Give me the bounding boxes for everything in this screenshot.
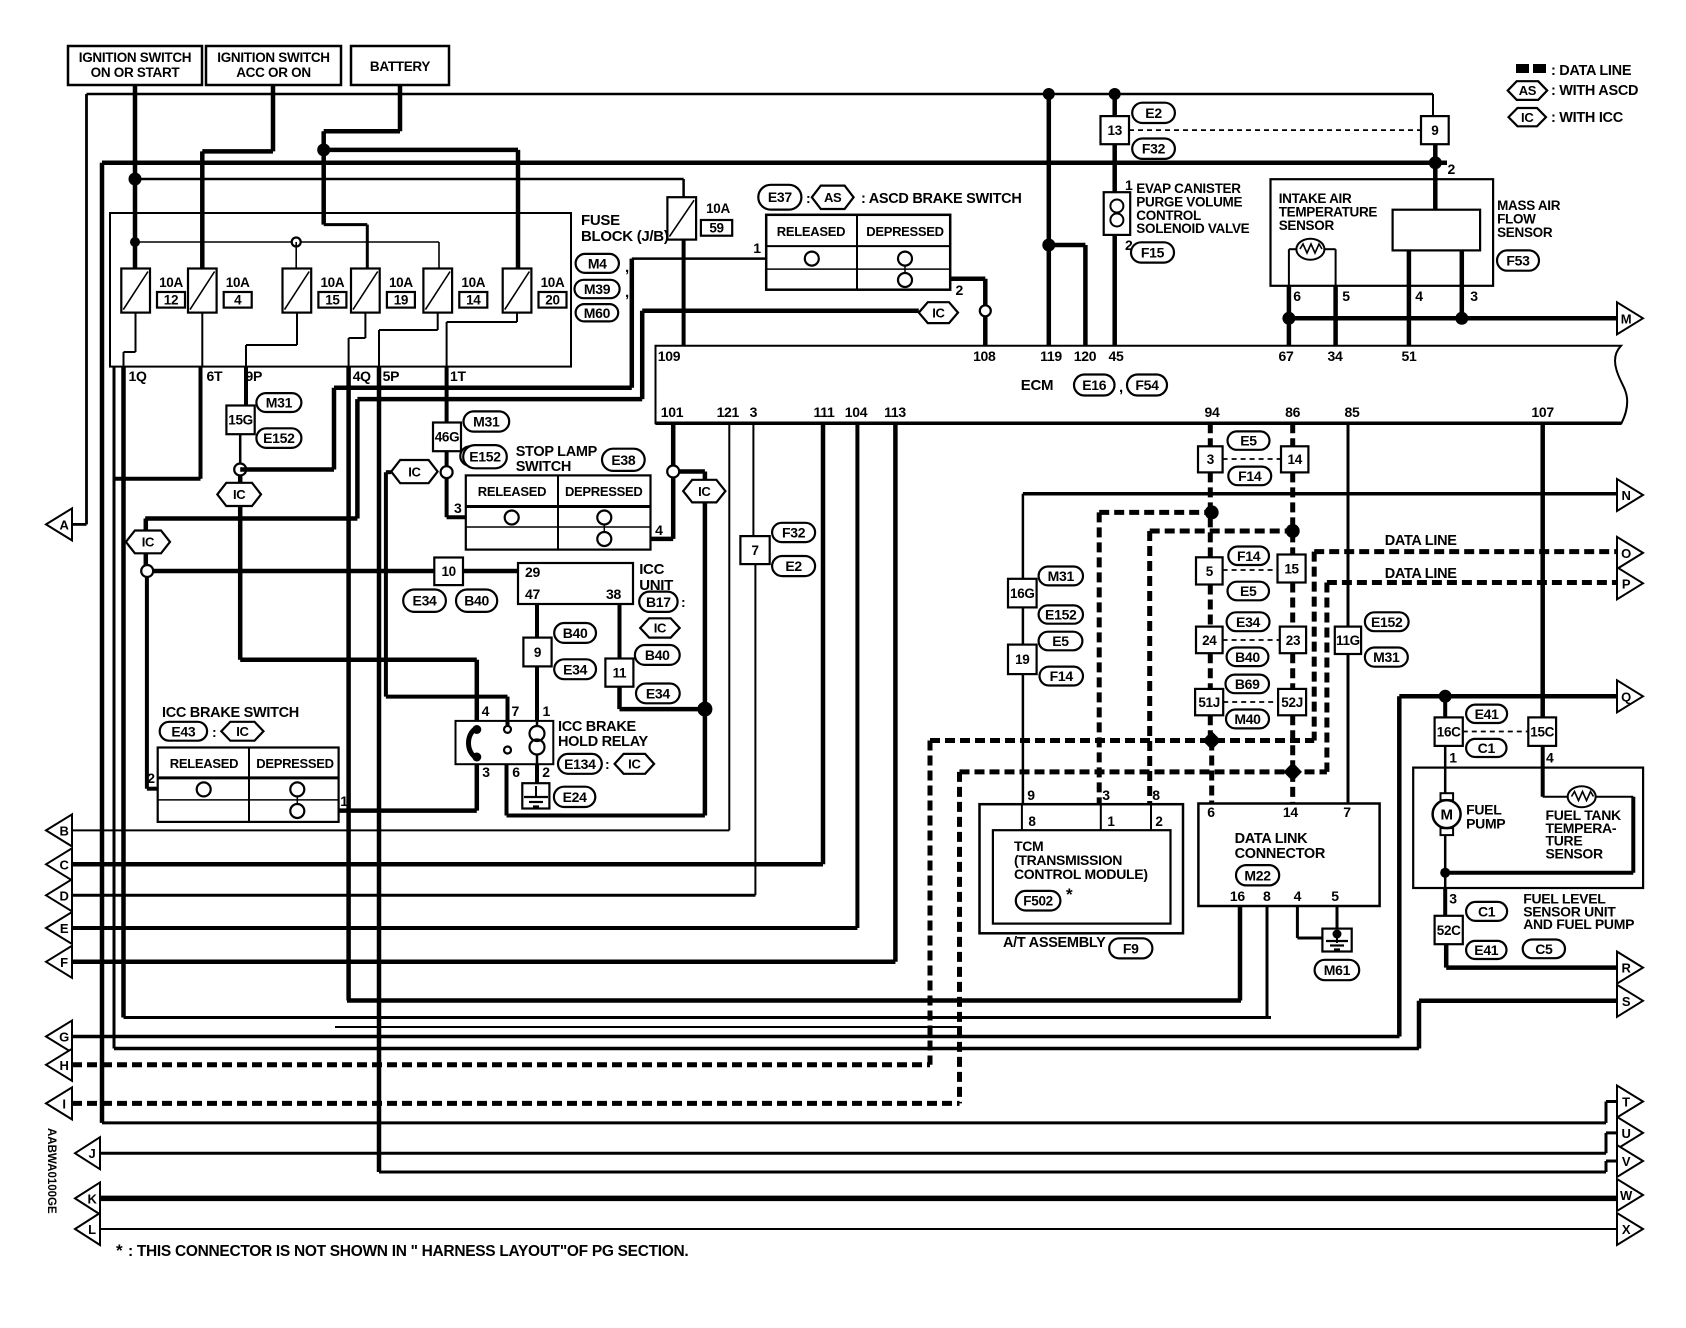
svg-text:E134: E134 xyxy=(564,756,596,772)
svg-text:H: H xyxy=(59,1058,68,1073)
svg-text:E24: E24 xyxy=(563,789,588,805)
svg-text:1: 1 xyxy=(1125,177,1133,193)
svg-text:120: 120 xyxy=(1074,348,1097,364)
svg-text:19: 19 xyxy=(1015,652,1029,667)
svg-text:E43: E43 xyxy=(171,723,196,739)
svg-text:10A: 10A xyxy=(159,275,183,290)
svg-text:W: W xyxy=(1620,1188,1633,1203)
svg-text:E41: E41 xyxy=(1475,706,1500,722)
svg-text:F15: F15 xyxy=(1141,244,1165,260)
svg-text:C: C xyxy=(59,857,69,872)
svg-text:SENSOR: SENSOR xyxy=(1497,225,1553,240)
svg-text:E5: E5 xyxy=(1240,433,1257,449)
svg-text:: ASCD BRAKE SWITCH: : ASCD BRAKE SWITCH xyxy=(861,191,1022,207)
svg-text:5: 5 xyxy=(1342,288,1350,304)
svg-text:SENSOR: SENSOR xyxy=(1279,218,1335,233)
svg-text:B69: B69 xyxy=(1235,676,1260,692)
svg-text:14: 14 xyxy=(1283,804,1298,820)
svg-text:P: P xyxy=(1622,576,1631,591)
svg-text:F14: F14 xyxy=(1050,668,1074,684)
svg-text:16: 16 xyxy=(1230,888,1245,904)
svg-text:*: * xyxy=(1066,885,1073,904)
svg-text:ECM: ECM xyxy=(1021,377,1053,394)
svg-text:15G: 15G xyxy=(228,413,253,428)
svg-text:9: 9 xyxy=(1431,123,1438,138)
svg-text:67: 67 xyxy=(1279,348,1294,364)
svg-text:G: G xyxy=(59,1030,69,1045)
svg-text:6T: 6T xyxy=(207,368,223,384)
svg-text:IC: IC xyxy=(236,724,249,739)
svg-text:M31: M31 xyxy=(1048,568,1075,584)
svg-text:RELEASED: RELEASED xyxy=(170,756,238,771)
svg-text:M40: M40 xyxy=(1234,711,1261,727)
svg-text:4: 4 xyxy=(1415,288,1423,304)
svg-text:1: 1 xyxy=(1449,749,1457,765)
svg-text::: : xyxy=(681,594,685,610)
svg-text:E38: E38 xyxy=(611,452,636,468)
svg-text:6: 6 xyxy=(1293,288,1301,304)
svg-text:4Q: 4Q xyxy=(353,368,371,384)
svg-text:AS: AS xyxy=(1519,83,1537,98)
svg-text:M61: M61 xyxy=(1324,962,1351,978)
svg-text:1: 1 xyxy=(543,703,551,719)
svg-text:F9: F9 xyxy=(1123,940,1139,956)
svg-text:E34: E34 xyxy=(646,685,671,701)
svg-text:C5: C5 xyxy=(1535,941,1553,957)
svg-text:15: 15 xyxy=(1284,561,1299,576)
svg-text:1Q: 1Q xyxy=(129,368,147,384)
svg-text:8: 8 xyxy=(1263,888,1271,904)
svg-text:FUSE: FUSE xyxy=(581,212,620,229)
svg-text:: WITH ICC: : WITH ICC xyxy=(1551,110,1624,126)
svg-text:,: , xyxy=(625,284,629,301)
svg-text:IC: IC xyxy=(1521,110,1534,125)
svg-text:111: 111 xyxy=(814,404,835,420)
svg-text:IGNITION SWITCH: IGNITION SWITCH xyxy=(79,50,192,65)
svg-text:12: 12 xyxy=(164,293,178,308)
svg-text:1: 1 xyxy=(753,240,761,256)
svg-text:59: 59 xyxy=(709,221,723,236)
svg-text:F14: F14 xyxy=(1237,548,1261,564)
svg-text:STOP LAMP: STOP LAMP xyxy=(516,444,598,460)
svg-text:1T: 1T xyxy=(450,368,466,384)
svg-text:4: 4 xyxy=(482,703,490,719)
svg-text:E152: E152 xyxy=(1045,607,1077,623)
svg-text:IC: IC xyxy=(233,487,246,502)
svg-text:86: 86 xyxy=(1285,404,1300,420)
svg-text:23: 23 xyxy=(1286,633,1301,648)
svg-text:N: N xyxy=(1621,488,1630,503)
svg-text:B40: B40 xyxy=(563,625,588,641)
svg-text:A/T ASSEMBLY: A/T ASSEMBLY xyxy=(1003,935,1106,951)
svg-text:IC: IC xyxy=(408,464,421,479)
svg-text:M39: M39 xyxy=(584,281,611,297)
svg-text:DEPRESSED: DEPRESSED xyxy=(565,484,643,499)
svg-text:IGNITION SWITCH: IGNITION SWITCH xyxy=(217,50,330,65)
svg-text:E41: E41 xyxy=(1474,942,1499,958)
svg-text:: THIS CONNECTOR IS NOT SHOWN: : THIS CONNECTOR IS NOT SHOWN IN " HARNE… xyxy=(128,1243,688,1260)
svg-text:DATA LINE: DATA LINE xyxy=(1385,533,1458,549)
svg-text::: : xyxy=(212,724,216,740)
svg-text:11G: 11G xyxy=(1336,633,1360,648)
svg-text:52C: 52C xyxy=(1437,923,1461,938)
svg-text:3: 3 xyxy=(1449,891,1457,907)
svg-text:DATA LINK: DATA LINK xyxy=(1235,831,1309,847)
svg-text:5: 5 xyxy=(1331,888,1339,904)
svg-text:A: A xyxy=(59,517,69,532)
svg-text:RELEASED: RELEASED xyxy=(777,224,845,239)
svg-text:15: 15 xyxy=(325,293,340,308)
svg-text:15C: 15C xyxy=(1530,725,1554,740)
svg-text:: DATA LINE: : DATA LINE xyxy=(1551,63,1632,79)
svg-text:F32: F32 xyxy=(1142,141,1166,157)
svg-text:,: , xyxy=(1119,379,1123,396)
svg-text:34: 34 xyxy=(1328,348,1343,364)
svg-text:47: 47 xyxy=(525,586,540,602)
svg-text:M22: M22 xyxy=(1244,867,1271,883)
svg-text:121: 121 xyxy=(717,404,740,420)
svg-text:16G: 16G xyxy=(1010,586,1035,601)
svg-text:IC: IC xyxy=(142,535,155,550)
svg-text:9: 9 xyxy=(1027,787,1035,803)
svg-text:C1: C1 xyxy=(1478,740,1496,756)
svg-text:10A: 10A xyxy=(226,275,250,290)
svg-text:F: F xyxy=(60,955,68,970)
svg-text:3: 3 xyxy=(1207,452,1215,467)
svg-text:4: 4 xyxy=(1294,888,1302,904)
svg-text:M31: M31 xyxy=(266,395,293,411)
svg-text:DEPRESSED: DEPRESSED xyxy=(256,756,334,771)
svg-text:10A: 10A xyxy=(461,275,485,290)
svg-text:3: 3 xyxy=(750,404,758,420)
svg-text:3: 3 xyxy=(454,500,462,516)
svg-text:E5: E5 xyxy=(1240,583,1257,599)
svg-text:R: R xyxy=(1621,961,1631,976)
svg-text:L: L xyxy=(88,1222,96,1237)
svg-text:5: 5 xyxy=(1206,564,1214,579)
svg-text::: : xyxy=(605,756,609,772)
svg-text:IC: IC xyxy=(698,484,711,499)
svg-text:E37: E37 xyxy=(768,189,793,205)
svg-text:I: I xyxy=(62,1096,65,1111)
svg-text:F14: F14 xyxy=(1238,468,1262,484)
svg-text:AND FUEL PUMP: AND FUEL PUMP xyxy=(1523,916,1634,932)
svg-text:AABWA0100GE: AABWA0100GE xyxy=(45,1128,57,1214)
svg-text:ICC BRAKE SWITCH: ICC BRAKE SWITCH xyxy=(162,705,299,721)
svg-text:SWITCH: SWITCH xyxy=(516,459,571,475)
svg-text:10A: 10A xyxy=(320,275,344,290)
svg-text:F54: F54 xyxy=(1135,377,1159,393)
svg-text:M31: M31 xyxy=(473,414,500,430)
svg-text:2: 2 xyxy=(147,770,155,786)
svg-text::: : xyxy=(806,190,810,206)
svg-text:B40: B40 xyxy=(464,593,489,609)
svg-text:ON OR START: ON OR START xyxy=(91,65,181,80)
svg-text:PUMP: PUMP xyxy=(1466,816,1505,832)
svg-text:X: X xyxy=(1622,1222,1631,1237)
svg-text:10A: 10A xyxy=(541,275,565,290)
svg-text:2: 2 xyxy=(956,282,964,298)
svg-text:M: M xyxy=(1440,807,1452,824)
svg-text:: WITH ASCD: : WITH ASCD xyxy=(1551,83,1638,99)
svg-text:C1: C1 xyxy=(1478,903,1496,919)
svg-text:M4: M4 xyxy=(588,255,607,271)
svg-text:E16: E16 xyxy=(1082,377,1107,393)
svg-text:SOLENOID VALVE: SOLENOID VALVE xyxy=(1136,221,1249,236)
svg-text:14: 14 xyxy=(1287,452,1302,467)
svg-text:107: 107 xyxy=(1531,404,1554,420)
svg-text:E34: E34 xyxy=(413,593,438,609)
svg-text:O: O xyxy=(1621,546,1631,561)
svg-text:108: 108 xyxy=(973,348,996,364)
svg-text:BATTERY: BATTERY xyxy=(370,59,430,74)
svg-text:16C: 16C xyxy=(1437,725,1461,740)
svg-text:8: 8 xyxy=(1152,787,1160,803)
svg-text:E34: E34 xyxy=(1236,614,1261,630)
svg-text:E: E xyxy=(60,921,69,936)
svg-text:10A: 10A xyxy=(706,201,730,216)
svg-text:F502: F502 xyxy=(1023,894,1053,909)
svg-text:5P: 5P xyxy=(383,368,400,384)
svg-text:7: 7 xyxy=(1343,804,1351,820)
svg-text:10A: 10A xyxy=(389,275,413,290)
svg-text:4: 4 xyxy=(234,293,242,308)
svg-text:B17: B17 xyxy=(646,594,671,610)
svg-text:9: 9 xyxy=(534,645,541,660)
svg-text:E34: E34 xyxy=(563,661,588,677)
svg-text:HOLD RELAY: HOLD RELAY xyxy=(558,734,649,750)
svg-text:2: 2 xyxy=(1448,161,1456,177)
svg-text:1: 1 xyxy=(340,793,348,809)
svg-text:4: 4 xyxy=(1546,749,1554,765)
svg-text:IC: IC xyxy=(932,305,945,320)
svg-text:8: 8 xyxy=(1028,814,1036,829)
svg-text:29: 29 xyxy=(525,564,540,580)
svg-text:85: 85 xyxy=(1345,404,1360,420)
svg-text:,: , xyxy=(625,259,629,276)
svg-text:101: 101 xyxy=(661,404,684,420)
svg-text:3: 3 xyxy=(1470,288,1478,304)
svg-text:DATA LINE: DATA LINE xyxy=(1385,566,1458,582)
svg-text:119: 119 xyxy=(1040,348,1062,364)
svg-text:D: D xyxy=(59,888,68,903)
svg-text:94: 94 xyxy=(1205,404,1220,420)
svg-text:E5: E5 xyxy=(1052,633,1069,649)
svg-text:E2: E2 xyxy=(785,558,802,574)
svg-text:K: K xyxy=(87,1191,97,1206)
svg-text:BLOCK (J/B): BLOCK (J/B) xyxy=(581,228,669,245)
svg-text:51J: 51J xyxy=(1198,695,1220,710)
svg-text:10: 10 xyxy=(441,564,455,579)
svg-text:S: S xyxy=(1622,994,1631,1009)
svg-text:U: U xyxy=(1621,1126,1630,1141)
svg-text:SENSOR: SENSOR xyxy=(1546,845,1604,861)
svg-text:45: 45 xyxy=(1109,348,1124,364)
svg-text:24: 24 xyxy=(1202,633,1217,648)
svg-text:2: 2 xyxy=(542,764,550,780)
svg-text:1: 1 xyxy=(1107,814,1115,829)
svg-text:104: 104 xyxy=(845,404,868,420)
svg-text:3: 3 xyxy=(482,764,490,780)
svg-text:J: J xyxy=(89,1146,96,1161)
svg-text:19: 19 xyxy=(394,293,408,308)
svg-text:6: 6 xyxy=(1207,804,1215,820)
svg-text:M31: M31 xyxy=(1373,649,1400,665)
svg-text:B40: B40 xyxy=(645,647,670,663)
svg-text:51: 51 xyxy=(1402,348,1417,364)
svg-text:109: 109 xyxy=(658,348,681,364)
svg-text:V: V xyxy=(1622,1154,1631,1169)
svg-text:RELEASED: RELEASED xyxy=(478,484,546,499)
svg-text:38: 38 xyxy=(606,586,621,602)
svg-text:IC: IC xyxy=(654,621,667,636)
svg-text:CONNECTOR: CONNECTOR xyxy=(1235,846,1326,862)
svg-text:DEPRESSED: DEPRESSED xyxy=(866,224,944,239)
svg-text:B: B xyxy=(59,823,68,838)
svg-text:CONTROL MODULE): CONTROL MODULE) xyxy=(1014,866,1148,882)
svg-text:E152: E152 xyxy=(469,449,501,465)
svg-text:ICC BRAKE: ICC BRAKE xyxy=(558,719,636,735)
svg-text:14: 14 xyxy=(466,293,481,308)
svg-text:46G: 46G xyxy=(435,430,460,445)
svg-text:F32: F32 xyxy=(782,524,806,540)
svg-text:F53: F53 xyxy=(1506,253,1530,269)
svg-text:E152: E152 xyxy=(263,430,295,446)
svg-text:IC: IC xyxy=(628,757,641,772)
svg-text:113: 113 xyxy=(884,404,906,420)
svg-text:13: 13 xyxy=(1108,123,1123,138)
svg-text:20: 20 xyxy=(545,293,559,308)
svg-text:*: * xyxy=(116,1241,123,1260)
svg-text:E2: E2 xyxy=(1145,105,1162,121)
svg-text:T: T xyxy=(1622,1095,1630,1110)
svg-text:B40: B40 xyxy=(1235,649,1260,665)
svg-text:AS: AS xyxy=(824,190,842,205)
svg-text:2: 2 xyxy=(1155,814,1162,829)
svg-text:52J: 52J xyxy=(1281,695,1303,710)
svg-text:Q: Q xyxy=(1621,689,1631,704)
svg-text:7: 7 xyxy=(512,703,520,719)
svg-text:M60: M60 xyxy=(584,305,611,321)
svg-text:ICC: ICC xyxy=(639,561,664,578)
svg-text:M: M xyxy=(1621,311,1632,326)
svg-text:6: 6 xyxy=(512,764,520,780)
svg-text:7: 7 xyxy=(751,543,758,558)
svg-text:3: 3 xyxy=(1102,787,1110,803)
svg-text:E152: E152 xyxy=(1371,614,1403,630)
svg-text:ACC OR ON: ACC OR ON xyxy=(236,65,311,80)
svg-text:11: 11 xyxy=(613,665,627,680)
svg-text:4: 4 xyxy=(655,522,663,538)
